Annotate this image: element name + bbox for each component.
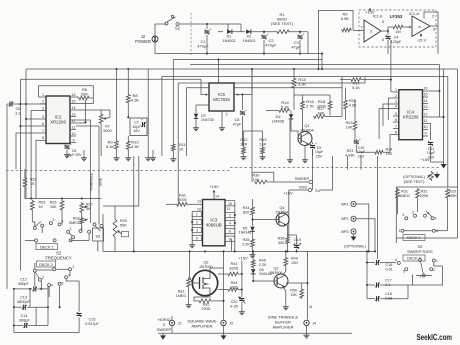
svg-text:0.1: 0.1 xyxy=(385,283,390,287)
wire bus xyxy=(173,59,322,61)
svg-text:5: 5 xyxy=(395,112,397,116)
ground J3 xyxy=(223,333,225,335)
wire xyxy=(252,199,254,206)
wire IC2 pin 5 xyxy=(40,118,46,120)
wire xyxy=(443,69,445,162)
ground xyxy=(289,158,291,160)
resistor R24 10K xyxy=(374,150,384,154)
wire xyxy=(340,79,350,81)
svg-text:1: 1 xyxy=(395,88,397,92)
wire xyxy=(447,199,449,228)
wire S5 box bottom xyxy=(396,237,457,239)
wire IC4 pin 3 xyxy=(393,103,399,105)
wire xyxy=(263,40,265,54)
wire IC4 pin 1 xyxy=(393,91,399,93)
junction xyxy=(241,93,243,95)
IC IC4 XR2206 xyxy=(399,90,423,140)
svg-text:2: 2 xyxy=(432,15,434,19)
wire xyxy=(438,65,440,118)
wire D2 to R1 xyxy=(251,31,276,33)
wire xyxy=(380,262,396,264)
wire S1 to rectifier xyxy=(179,23,241,25)
ground IC5 xyxy=(221,126,223,128)
wire xyxy=(40,281,42,289)
svg-text:+: + xyxy=(359,138,361,142)
wire xyxy=(35,242,37,244)
wire xyxy=(302,282,308,284)
svg-text:220Ω: 220Ω xyxy=(202,307,211,311)
wire xyxy=(133,156,135,251)
wire xyxy=(76,125,99,127)
svg-text:2: 2 xyxy=(70,227,72,231)
junction xyxy=(366,261,368,263)
wire to IC1-A xyxy=(404,26,412,28)
svg-text:6: 6 xyxy=(42,122,44,126)
junction xyxy=(59,306,61,308)
wire xyxy=(138,156,140,206)
op-amp IC1-A xyxy=(412,16,430,37)
wire bottom xyxy=(14,332,79,334)
wire xyxy=(31,111,40,199)
wire pin12 xyxy=(428,116,444,118)
wire xyxy=(367,262,375,264)
wire Q1 collector xyxy=(303,131,306,133)
wire xyxy=(243,131,245,146)
svg-text:13: 13 xyxy=(72,112,76,116)
junction xyxy=(234,250,236,252)
wire xyxy=(103,250,369,252)
wire xyxy=(355,145,357,153)
svg-text:.068µF: .068µF xyxy=(18,318,30,322)
wire xyxy=(262,131,264,146)
svg-text:+: + xyxy=(299,242,301,246)
svg-text:(SEE TEXT): (SEE TEXT) xyxy=(271,21,294,26)
svg-text:7: 7 xyxy=(360,26,362,30)
wire xyxy=(424,12,438,26)
svg-text:MC7815: MC7815 xyxy=(213,97,230,102)
wire xyxy=(312,142,314,144)
wire xyxy=(81,225,83,231)
svg-text:+: + xyxy=(267,33,269,37)
wire xyxy=(25,69,27,199)
wire bus xyxy=(20,78,201,80)
svg-text:22K: 22K xyxy=(241,142,248,147)
svg-text:5000: 5000 xyxy=(178,198,186,202)
wire xyxy=(266,110,278,112)
junction xyxy=(438,90,440,92)
wire xyxy=(289,120,291,159)
wire xyxy=(407,285,409,299)
wire xyxy=(345,110,347,120)
wire S4 up xyxy=(320,156,333,190)
wire xyxy=(387,31,389,35)
ground D3 xyxy=(195,126,197,128)
svg-text:+: + xyxy=(245,109,247,113)
wire xyxy=(388,27,392,31)
wire IC4 pin 14 xyxy=(423,103,429,105)
resistor R35 2.2K xyxy=(251,238,255,248)
wire xyxy=(299,40,301,54)
wire xyxy=(213,196,215,200)
wire xyxy=(312,149,314,156)
wire xyxy=(81,227,83,231)
wire Q1 emitter xyxy=(304,146,306,159)
wire xyxy=(239,289,242,291)
svg-text:2: 2 xyxy=(196,221,198,225)
wire xyxy=(252,232,254,238)
svg-text:13: 13 xyxy=(424,105,428,109)
svg-text:J4: J4 xyxy=(309,305,313,309)
junction xyxy=(368,250,370,252)
svg-text:1MEG: 1MEG xyxy=(399,194,410,198)
wire xyxy=(24,188,26,199)
op-amp IC1-b xyxy=(364,20,381,42)
wire IC4 pin 2 xyxy=(393,97,399,99)
wire xyxy=(447,228,449,231)
switch S5 deck2 contacts xyxy=(397,262,400,265)
svg-text:2N3906: 2N3906 xyxy=(270,271,283,275)
svg-text:10: 10 xyxy=(197,208,201,212)
svg-text:25V: 25V xyxy=(428,155,435,159)
svg-text:1N4148: 1N4148 xyxy=(239,231,252,235)
junction xyxy=(47,306,49,308)
svg-text:6: 6 xyxy=(395,118,397,122)
wire xyxy=(32,222,35,227)
junction xyxy=(234,214,236,216)
wire xyxy=(76,97,78,98)
svg-text:12: 12 xyxy=(424,113,428,117)
wire xyxy=(345,88,347,99)
wire xyxy=(71,239,90,241)
svg-text:1N4738: 1N4738 xyxy=(201,118,214,122)
svg-text:2: 2 xyxy=(433,268,435,272)
wire xyxy=(299,32,301,34)
wire xyxy=(397,199,399,214)
wire J2 top xyxy=(154,24,156,36)
svg-text:SWEEP RATE: SWEEP RATE xyxy=(407,249,433,254)
svg-text:4: 4 xyxy=(51,284,53,288)
wire xyxy=(367,284,375,286)
junction C1 top xyxy=(206,23,208,25)
svg-text:1N4002: 1N4002 xyxy=(243,39,256,43)
svg-text:2.2K: 2.2K xyxy=(242,242,250,246)
junction xyxy=(390,79,392,81)
junction C1 bottom xyxy=(206,53,208,55)
wire xyxy=(231,239,233,252)
svg-text:1: 1 xyxy=(73,265,75,269)
svg-text:2: 2 xyxy=(403,213,405,217)
svg-text:470µF: 470µF xyxy=(197,44,209,49)
svg-text:5: 5 xyxy=(435,217,437,221)
wire xyxy=(293,89,295,110)
svg-text:820: 820 xyxy=(243,210,249,214)
svg-text:2.2K: 2.2K xyxy=(259,263,267,267)
wire C12 top xyxy=(34,272,36,286)
svg-text:1: 1 xyxy=(205,93,207,97)
svg-text:3: 3 xyxy=(395,100,397,104)
wire xyxy=(355,139,357,140)
dashed chassis line xyxy=(190,13,192,55)
jack J2 POWER xyxy=(152,36,158,42)
wire xyxy=(147,69,149,156)
svg-text:-15 V: -15 V xyxy=(417,38,427,43)
resistor R8 4.3K xyxy=(126,94,130,105)
svg-text:14: 14 xyxy=(215,195,219,199)
svg-text:5: 5 xyxy=(403,270,405,274)
wire xyxy=(288,190,290,196)
junction xyxy=(61,197,63,199)
wire xyxy=(48,286,50,297)
ground R35 xyxy=(252,253,254,255)
transistor Q4 2N3904 xyxy=(276,213,289,226)
svg-text:9: 9 xyxy=(425,132,427,136)
wire xyxy=(41,227,43,233)
wire to +15 bus xyxy=(243,69,253,95)
wire xyxy=(212,300,224,302)
wire xyxy=(114,238,116,251)
wire IC2 pin 9 xyxy=(70,142,76,144)
svg-text:J2: J2 xyxy=(178,322,182,326)
svg-text:10Ω: 10Ω xyxy=(291,261,298,265)
wire xyxy=(242,95,244,111)
svg-text:1: 1 xyxy=(408,25,410,29)
wire xyxy=(34,263,36,269)
svg-text:2: 2 xyxy=(42,276,44,280)
wire D3 top xyxy=(196,104,209,106)
wire xyxy=(252,251,254,259)
wire xyxy=(89,120,91,223)
junction xyxy=(374,250,376,252)
ground arrow IC4 xyxy=(443,162,445,164)
svg-text:+: + xyxy=(141,118,143,122)
wire xyxy=(171,326,173,334)
wire xyxy=(29,289,31,307)
wire to IC5 pin1 xyxy=(201,79,209,94)
wire xyxy=(66,150,68,154)
wire xyxy=(380,298,408,300)
wire to ground xyxy=(431,161,444,163)
junction xyxy=(217,58,219,60)
junction C3 top xyxy=(299,31,301,33)
svg-text:300: 300 xyxy=(278,241,284,245)
wire xyxy=(435,230,447,232)
svg-text:DECK 2: DECK 2 xyxy=(39,263,53,267)
svg-text:5: 5 xyxy=(382,20,384,24)
wire to D1 xyxy=(218,31,223,33)
wire IC4 pin 4 xyxy=(393,108,399,110)
svg-text:R29: R29 xyxy=(120,219,127,223)
wire S3 out xyxy=(97,241,99,251)
ground Ra2 xyxy=(188,303,190,305)
wire xyxy=(367,298,375,300)
wire xyxy=(115,205,139,207)
svg-text:BP1: BP1 xyxy=(341,203,348,207)
wire xyxy=(241,261,243,274)
junction xyxy=(293,68,295,70)
svg-text:0.01: 0.01 xyxy=(386,267,393,271)
svg-text:5000: 5000 xyxy=(103,129,111,133)
wire xyxy=(56,268,69,270)
wire to SWEEP xyxy=(268,181,309,183)
wire IC4 pin 13 xyxy=(423,109,429,111)
wire bus xyxy=(162,76,448,78)
wire IC4 pin 7 xyxy=(393,128,399,130)
wire IC2 pin 12 xyxy=(70,122,76,124)
wire xyxy=(14,288,32,290)
wire xyxy=(185,88,187,156)
wire xyxy=(306,326,308,334)
svg-text:1K: 1K xyxy=(30,182,35,186)
svg-text:C5: C5 xyxy=(16,107,21,111)
wire xyxy=(354,131,356,139)
junction xyxy=(127,68,129,70)
junction xyxy=(133,250,135,252)
svg-text:6: 6 xyxy=(382,38,384,42)
svg-text:R7: R7 xyxy=(105,125,110,129)
transistor Q3 2N3906 xyxy=(274,274,288,288)
junction xyxy=(13,306,15,308)
ground J4 xyxy=(306,333,308,335)
junction xyxy=(222,300,224,302)
wire xyxy=(223,326,225,334)
wire to pin13 xyxy=(188,203,203,205)
wire xyxy=(413,266,443,285)
svg-text:2: 2 xyxy=(395,94,397,98)
wire xyxy=(241,274,243,290)
wire C13 link xyxy=(47,286,49,307)
wire +15V bus xyxy=(26,68,458,70)
svg-text:4: 4 xyxy=(229,222,231,226)
wire xyxy=(127,69,129,94)
wire xyxy=(341,88,343,117)
svg-text:SWEEP: SWEEP xyxy=(295,176,310,181)
wire xyxy=(218,289,227,291)
regulator IC5 MC7815 xyxy=(209,83,234,111)
wire IC4 pin 16 xyxy=(423,90,429,92)
junction C2 top xyxy=(263,31,265,33)
svg-text:4066UB: 4066UB xyxy=(206,223,222,228)
wire IC4 pin 8 xyxy=(393,134,399,136)
wire xyxy=(234,203,236,251)
resistor R22 10K xyxy=(353,120,357,131)
wire xyxy=(101,110,110,118)
junction xyxy=(366,250,368,252)
svg-text:BP3: BP3 xyxy=(341,230,348,234)
svg-text:1MEG: 1MEG xyxy=(176,294,187,298)
svg-text:50K: 50K xyxy=(120,223,127,227)
svg-text:15: 15 xyxy=(72,99,76,103)
junction xyxy=(13,288,15,290)
svg-text:VDD: VDD xyxy=(299,185,308,190)
wire xyxy=(127,104,129,117)
svg-text:SWEEP: SWEEP xyxy=(157,327,172,332)
wire xyxy=(195,119,197,126)
svg-text:DECK 1: DECK 1 xyxy=(407,236,421,240)
svg-text:4: 4 xyxy=(395,104,397,108)
wire IC4 pin 10 xyxy=(423,129,429,131)
transistor Q2 2N7000 xyxy=(192,270,217,295)
wire xyxy=(293,69,295,77)
svg-text:5MEG: 5MEG xyxy=(69,221,80,225)
resistor R33 499K xyxy=(446,188,450,199)
IC IC2 XR2206 xyxy=(46,96,70,144)
wire xyxy=(252,172,274,182)
wire IC2 pin 13 xyxy=(70,116,76,118)
wire xyxy=(127,136,129,140)
svg-text:Q2: Q2 xyxy=(203,261,208,265)
wire xyxy=(218,273,227,275)
junction xyxy=(191,221,193,223)
svg-text:3: 3 xyxy=(196,229,198,233)
wire xyxy=(28,324,48,326)
svg-text:TRIANGLE: TRIANGLE xyxy=(90,172,94,191)
svg-text:15: 15 xyxy=(424,93,428,97)
wire xyxy=(166,203,176,205)
svg-text:(OPTIONAL): (OPTIONAL) xyxy=(344,245,366,249)
svg-text:C8: C8 xyxy=(235,118,240,122)
wire IC2 pin 7 xyxy=(40,132,46,134)
junction pin5 xyxy=(25,118,27,120)
resistor R4 1M xyxy=(392,25,404,29)
svg-text:10K: 10K xyxy=(50,205,57,209)
wire xyxy=(25,239,35,241)
junction xyxy=(30,197,32,199)
wire xyxy=(288,196,290,237)
junction xyxy=(241,288,243,290)
wire top tie xyxy=(294,94,330,96)
wire BP1 xyxy=(356,204,369,251)
resistor R19 5.1K xyxy=(350,78,362,82)
wire xyxy=(252,275,254,282)
svg-text:16: 16 xyxy=(424,87,428,91)
wire xyxy=(206,24,208,29)
svg-text:680pF: 680pF xyxy=(18,282,29,286)
switch S5 DECK 2 label xyxy=(403,255,425,261)
wire xyxy=(83,150,85,156)
junction xyxy=(19,103,21,105)
svg-text:16: 16 xyxy=(72,93,76,97)
wire xyxy=(302,95,304,100)
jack J3 xyxy=(221,320,226,325)
dashed enclosure IC1 xyxy=(359,10,436,47)
switch S3 xyxy=(93,228,104,241)
wire bus xyxy=(190,64,439,66)
IC3 left switch boxes xyxy=(192,212,201,217)
switch S2 deck1 contacts xyxy=(33,227,36,230)
wire xyxy=(127,151,129,157)
wire S2 top bus xyxy=(25,198,102,200)
switch S5 deck1 xyxy=(405,217,408,220)
junction xyxy=(241,273,243,275)
wire xyxy=(195,105,197,113)
junction xyxy=(387,30,389,32)
wire xyxy=(288,234,297,236)
wire xyxy=(188,288,190,303)
svg-text:POWER: POWER xyxy=(135,39,151,44)
svg-text:6800pF: 6800pF xyxy=(17,300,30,304)
ground C20 xyxy=(241,310,243,312)
wire IC2 pin 1 xyxy=(40,96,46,98)
diode D2 1N4002 xyxy=(246,30,251,34)
wire xyxy=(341,77,343,88)
wire xyxy=(307,251,309,319)
wire xyxy=(14,324,24,326)
resistor R21 1K xyxy=(23,177,27,189)
wire xyxy=(78,318,80,333)
wire xyxy=(7,103,9,105)
svg-text:9-35: 9-35 xyxy=(230,304,237,308)
svg-text:2: 2 xyxy=(229,214,231,218)
